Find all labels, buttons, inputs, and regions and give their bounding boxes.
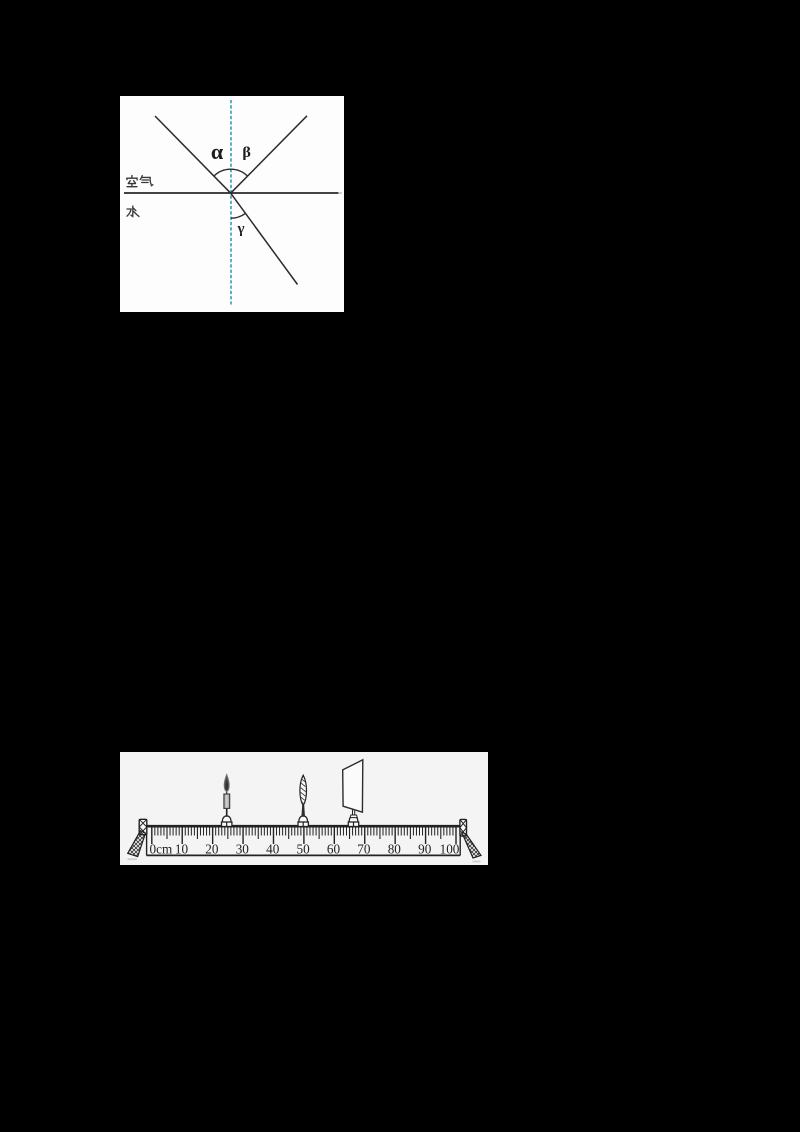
label shui (water) drawn glyph	[127, 206, 139, 216]
svg-text:100: 100	[440, 841, 460, 856]
svg-text:20: 20	[205, 841, 219, 856]
candle body	[224, 794, 230, 808]
wick	[226, 792, 228, 795]
svg-text:30: 30	[236, 841, 250, 856]
left foot shadow	[128, 858, 138, 860]
refracted ray	[231, 193, 298, 284]
arc gamma	[231, 213, 245, 218]
generated ticks	[151, 828, 153, 845]
qi	[140, 176, 142, 180]
svg-text:α: α	[211, 139, 224, 164]
scale numbers	[150, 841, 460, 856]
right foot shadow	[473, 861, 481, 863]
candle holder	[222, 816, 232, 827]
candle stem	[226, 808, 228, 817]
svg-text:60: 60	[327, 841, 341, 856]
ruler body	[143, 825, 466, 828]
svg-text:β: β	[242, 145, 251, 161]
right diagonal leg	[462, 832, 481, 858]
svg-text:50: 50	[297, 841, 311, 856]
lens holder	[298, 816, 308, 827]
right support post	[460, 819, 467, 836]
figure 1: light refraction at air/water interface	[120, 96, 344, 312]
label kongqi (air) drawn glyphs	[127, 176, 153, 187]
svg-text:70: 70	[357, 841, 371, 856]
flame	[224, 774, 229, 791]
tick marks	[152, 828, 456, 845]
screen holder	[348, 816, 358, 827]
lens stem	[301, 805, 305, 817]
svg-text:80: 80	[388, 841, 402, 856]
svg-text:90: 90	[418, 841, 432, 856]
normal (dashed)	[230, 100, 232, 305]
svg-text:γ: γ	[237, 221, 245, 237]
svg-text:0cm: 0cm	[150, 841, 173, 856]
arc over alpha+beta	[214, 169, 248, 176]
incident ray	[155, 116, 231, 193]
svg-text:10: 10	[175, 841, 189, 856]
svg-text:40: 40	[266, 841, 280, 856]
left diagonal leg	[128, 831, 146, 857]
screen (tilted board)	[343, 760, 363, 812]
figure 2: optical bench with candle, lens, screen	[120, 752, 488, 865]
reflected ray	[231, 116, 307, 193]
screen stem	[350, 810, 357, 818]
left support post	[139, 819, 147, 834]
interface line air/water	[124, 192, 339, 194]
lens (spindle with hatching)	[300, 775, 307, 805]
kong	[131, 176, 133, 178]
